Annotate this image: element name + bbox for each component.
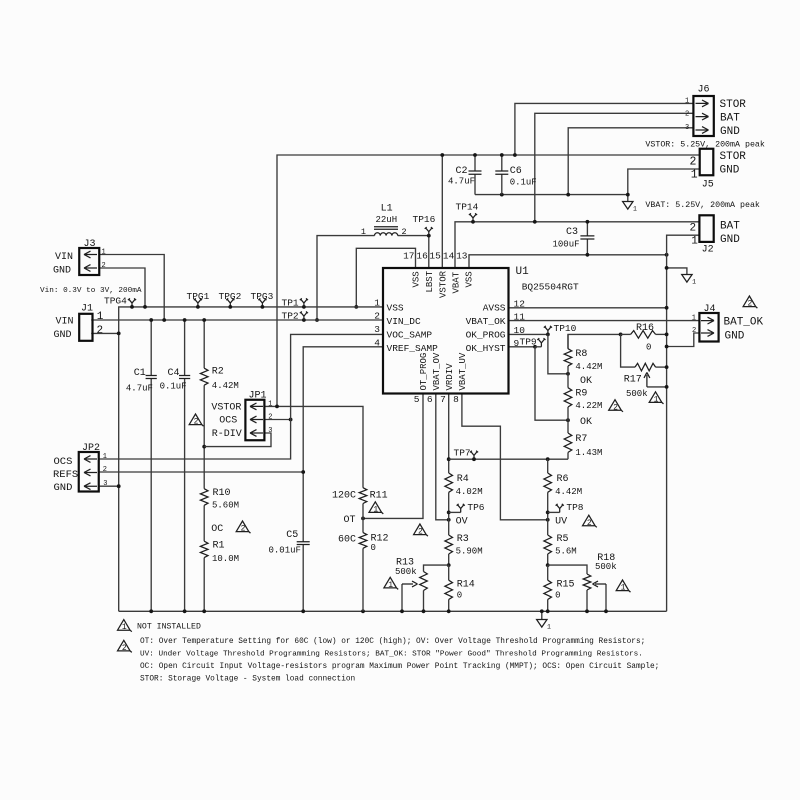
svg-text:TP2: TP2: [282, 311, 299, 322]
junction R18wiper-gnd: [604, 609, 608, 613]
junction C3-VBAT: [586, 220, 590, 224]
wire R3 bottom lead: [448, 554, 450, 565]
wire TP9 stub: [535, 346, 541, 348]
svg-text:OCS: OCS: [219, 415, 237, 426]
svg-text:2: 2: [122, 644, 127, 653]
svg-text:4.7uF: 4.7uF: [126, 384, 153, 394]
svg-text:R7: R7: [575, 434, 587, 445]
svg-text:R4: R4: [457, 474, 469, 485]
wire R18 branch: [548, 565, 587, 574]
wire C2 bottom: [474, 174, 476, 194]
junction pin17-VSSrail: [354, 305, 358, 309]
junction JP2p3-bus: [117, 484, 121, 488]
svg-text:14: 14: [443, 251, 455, 262]
svg-text:OT: Over Temperature Setting f: OT: Over Temperature Setting for 60C (lo…: [140, 638, 645, 646]
not-installed marker OC zone: [236, 521, 250, 533]
svg-text:4.7uF: 4.7uF: [448, 177, 475, 187]
capacitor C3: [580, 236, 594, 239]
not-installed marker OV zone: [414, 524, 428, 536]
svg-text:2: 2: [103, 466, 107, 474]
junction REFS-VREF: [301, 470, 305, 474]
connector J3: [79, 248, 99, 275]
svg-text:STOR: STOR: [720, 151, 747, 163]
svg-text:VBAT: 5.25V, 200mA peak: VBAT: 5.25V, 200mA peak: [645, 200, 760, 210]
svg-text:120C: 120C: [332, 491, 356, 502]
wire C4 bottom: [184, 379, 186, 612]
svg-text:4.42M: 4.42M: [575, 362, 602, 372]
ground G2: [682, 275, 692, 283]
junction gndstem: [540, 609, 544, 613]
svg-text:BQ25504RGT: BQ25504RGT: [522, 282, 579, 293]
test point TP2: [300, 312, 308, 321]
wire R15 top lead: [547, 565, 549, 580]
resistor R8: [564, 349, 572, 366]
junction R17-rail: [665, 365, 669, 369]
wire C5 bottom: [302, 545, 304, 612]
svg-text:2: 2: [613, 403, 618, 412]
wire C4 top stub: [184, 320, 186, 376]
wire U1 pin8 VBAT_UV to UV node: [462, 394, 548, 520]
wire U1 pin6 VBAT_OV to OV node: [436, 394, 449, 520]
svg-text:15: 15: [429, 251, 441, 262]
junction R12-gnd: [361, 609, 365, 613]
junction TP16 node: [427, 234, 431, 238]
svg-text:1: 1: [691, 236, 698, 248]
svg-text:C2: C2: [456, 166, 468, 177]
wire J3 pin1 to VIN rail: [99, 255, 164, 321]
svg-text:VSTOR: VSTOR: [438, 270, 448, 298]
resistor R14: [445, 580, 453, 599]
wire R17 wiper return: [647, 386, 667, 388]
junction VSSrail-rightrail: [665, 253, 669, 257]
svg-text:16: 16: [416, 251, 428, 262]
svg-text:1: 1: [97, 311, 104, 323]
svg-text:U1: U1: [516, 266, 530, 278]
wire J6 pin3 to GND bus: [568, 128, 693, 195]
wire U1 pin9 OK_HYST: [509, 346, 536, 348]
svg-text:10: 10: [514, 325, 526, 336]
note marker 1: [118, 620, 132, 632]
svg-text:7: 7: [440, 394, 446, 405]
svg-text:C6: C6: [510, 166, 522, 177]
svg-text:JP2: JP2: [82, 443, 100, 454]
svg-text:2: 2: [587, 519, 592, 528]
junction OV node: [447, 518, 451, 522]
junction J5gnd-bus: [626, 193, 630, 197]
svg-text:TP14: TP14: [456, 202, 479, 213]
wire OK_HYST down to R9/R7: [535, 347, 568, 420]
wire R17 left leg: [621, 334, 635, 367]
svg-text:C5: C5: [286, 530, 298, 541]
svg-text:BAT_OK: BAT_OK: [724, 317, 764, 329]
wire C1 top stub: [150, 320, 152, 376]
wire J1 pin2 to GND bus: [91, 332, 119, 334]
resistor R16: [631, 331, 656, 339]
connector J1: [79, 314, 92, 341]
wire R11 bottom to OT: [362, 504, 364, 519]
svg-text:1: 1: [654, 395, 659, 404]
svg-text:1: 1: [691, 169, 698, 182]
wire R2 to R10: [203, 385, 205, 489]
junction R9-R7 node: [566, 418, 570, 422]
junction C3-VSS: [586, 253, 590, 257]
svg-text:3: 3: [685, 124, 689, 132]
junction R16-rail: [665, 333, 669, 337]
svg-text:GND: GND: [725, 331, 745, 343]
svg-text:OC: Open Circuit Input Voltage: OC: Open Circuit Input Voltage-resistors…: [140, 663, 659, 671]
svg-text:R5: R5: [557, 534, 569, 545]
test point TP7: [470, 451, 478, 460]
junction TP1 node: [302, 305, 306, 309]
svg-text:GND: GND: [54, 482, 73, 494]
connector J6: [693, 96, 713, 136]
connector JP1: [245, 400, 264, 441]
svg-text:J1: J1: [81, 304, 93, 315]
svg-text:VIN: VIN: [55, 252, 73, 263]
wire R12 top lead: [362, 518, 364, 532]
svg-text:C3: C3: [566, 227, 578, 238]
resistor R9: [564, 388, 572, 407]
junction R16-R17 split: [619, 333, 623, 337]
svg-text:R8: R8: [575, 349, 587, 360]
svg-text:5.90M: 5.90M: [456, 547, 483, 557]
wire J2 pin1 GND to rail: [667, 235, 701, 611]
junction AVSS-rail: [665, 306, 669, 310]
svg-text:1: 1: [633, 206, 637, 213]
svg-text:1: 1: [268, 400, 272, 408]
junction R3-R13 node: [447, 563, 451, 567]
svg-text:TP9: TP9: [520, 337, 537, 348]
svg-text:13: 13: [456, 251, 468, 262]
wire L1 pin1 to VIN rail: [317, 236, 375, 320]
junction OT node: [361, 517, 365, 521]
svg-text:TP10: TP10: [554, 323, 577, 334]
svg-text:12: 12: [514, 298, 526, 309]
junction TP8 node: [546, 511, 550, 515]
wire R16 left lead: [621, 333, 631, 335]
svg-text:R16: R16: [636, 323, 654, 334]
svg-text:VSS: VSS: [412, 271, 422, 287]
connector J5: [700, 149, 714, 176]
junction R18-gnd: [585, 609, 589, 613]
svg-text:2: 2: [402, 227, 407, 237]
junction JP1p2-VOC: [289, 418, 293, 422]
junction J3p1-VIN: [162, 318, 166, 322]
wire U1 pin15 VSTOR stub: [441, 155, 443, 268]
connector J2: [699, 215, 713, 242]
svg-text:R10: R10: [213, 488, 231, 499]
inductor L1: [375, 233, 398, 236]
junction TP6 node: [447, 511, 451, 515]
svg-text:OCS: OCS: [54, 456, 73, 468]
svg-text:2: 2: [194, 418, 199, 427]
wire R9 bottom lead: [567, 407, 569, 420]
resistor R11: [359, 488, 367, 504]
svg-text:OK: OK: [580, 417, 592, 428]
wire R10 to R1: [203, 505, 205, 541]
resistor R12: [359, 533, 367, 549]
svg-text:2: 2: [102, 262, 106, 270]
resistor R2: [200, 368, 208, 385]
capacitor C4: [179, 376, 190, 379]
wire J3 pin2 to VSS rail: [99, 268, 145, 307]
junction R15-gnd: [546, 609, 550, 613]
svg-text:4.22M: 4.22M: [575, 401, 602, 411]
net VSS rail and GND bus: [119, 307, 383, 611]
svg-text:500k: 500k: [626, 389, 648, 399]
ground G3: [537, 620, 547, 628]
junction gndbranch: [665, 266, 669, 270]
svg-text:VBAT_OV: VBAT_OV: [432, 352, 442, 390]
junction C4-VIN: [183, 318, 187, 322]
svg-text:0.1uF: 0.1uF: [510, 178, 537, 188]
wire U1 pin14 VBAT to J2 pin2: [455, 222, 700, 268]
wire R6 bottom to R5: [547, 492, 549, 535]
svg-text:1: 1: [373, 505, 378, 514]
wire R6 top lead: [547, 459, 549, 473]
wire JP1 pin3 to R-DIV: [204, 433, 271, 447]
svg-text:VSS: VSS: [465, 271, 475, 287]
svg-text:J2: J2: [702, 244, 714, 255]
resistor R15: [544, 580, 552, 599]
svg-text:R6: R6: [557, 474, 569, 485]
net VSTOR rail: [277, 155, 700, 406]
svg-text:J6: J6: [698, 85, 710, 96]
svg-text:4: 4: [374, 337, 380, 348]
svg-text:VBAT: VBAT: [452, 271, 462, 293]
junction R1-gnd: [202, 609, 206, 613]
junction J1p2-bus: [117, 332, 121, 336]
svg-text:GND: GND: [54, 330, 72, 341]
svg-text:R14: R14: [457, 580, 475, 591]
svg-text:TP6: TP6: [467, 502, 484, 513]
svg-text:JP1: JP1: [249, 391, 267, 402]
svg-text:10.0M: 10.0M: [212, 554, 239, 564]
test point TP6: [457, 504, 465, 513]
svg-text:GND: GND: [720, 234, 740, 246]
not-installed marker R9: [609, 400, 623, 412]
wire C1 bottom: [150, 379, 152, 612]
svg-text:R9: R9: [575, 389, 587, 400]
junction C1-VIN: [149, 318, 153, 322]
svg-text:4.02M: 4.02M: [456, 487, 483, 497]
svg-text:VIN_DC: VIN_DC: [387, 316, 422, 327]
junction TP10 node: [546, 333, 550, 337]
svg-text:VRDIV: VRDIV: [445, 363, 455, 391]
wire JP2 pin3 to GND bus: [99, 485, 119, 487]
svg-text:OK_PROG: OK_PROG: [466, 330, 506, 341]
svg-text:VSS: VSS: [387, 302, 404, 313]
svg-text:100uF: 100uF: [553, 240, 580, 250]
svg-text:1: 1: [685, 97, 689, 105]
wire R5 bottom lead: [547, 554, 549, 565]
svg-text:1: 1: [692, 279, 696, 286]
not-installed marker R17: [649, 392, 663, 404]
svg-text:60C: 60C: [338, 535, 356, 546]
svg-text:GND: GND: [720, 126, 740, 138]
wire R7 top lead: [567, 420, 569, 433]
svg-text:VSTOR: VSTOR: [211, 402, 241, 413]
junction J4p2-rail: [665, 345, 669, 349]
svg-text:STOR: STOR: [720, 99, 747, 111]
svg-text:J5: J5: [702, 180, 714, 191]
wire U1 pin17 VSS loop: [356, 248, 415, 307]
svg-text:TPG2: TPG2: [219, 291, 242, 302]
test point TP10: [544, 326, 552, 335]
resistor R6: [544, 473, 552, 492]
svg-text:R2: R2: [212, 367, 224, 378]
svg-text:GND: GND: [720, 165, 740, 177]
junction L1-VIN: [315, 318, 319, 322]
svg-text:TPG3: TPG3: [251, 291, 274, 302]
wire R12 bottom lead: [362, 548, 364, 611]
resistor R3: [445, 535, 453, 554]
junction TP2 node: [302, 318, 306, 322]
wire R4 bottom to R3: [448, 492, 450, 535]
junction VRDIV-TP7: [447, 457, 451, 461]
svg-text:R1: R1: [213, 541, 225, 552]
svg-text:VOC_SAMP: VOC_SAMP: [387, 330, 433, 341]
svg-text:17: 17: [403, 251, 414, 262]
svg-text:OT_PROG: OT_PROG: [419, 353, 429, 391]
svg-text:UV: UV: [555, 517, 567, 528]
svg-text:1: 1: [621, 584, 626, 593]
svg-text:5.60M: 5.60M: [212, 501, 239, 511]
svg-text:VBAT_OK: VBAT_OK: [466, 316, 506, 327]
wire R13 branch: [424, 565, 449, 571]
svg-text:Vin: 0.3V to 3V, 200mA: Vin: 0.3V to 3V, 200mA: [40, 287, 142, 295]
junction J6p3-bus: [566, 193, 570, 197]
svg-text:R3: R3: [457, 534, 469, 545]
svg-text:TP7: TP7: [454, 448, 471, 459]
wire C3 bottom stub: [586, 239, 588, 255]
wire ground branch J2: [667, 268, 687, 275]
wire J6 pin1 to VSTOR rail: [515, 103, 694, 155]
svg-text:C1: C1: [134, 368, 146, 379]
junction J6p2-VBAT: [533, 220, 537, 224]
svg-text:5.6M: 5.6M: [555, 547, 577, 557]
wire JP1 pin1 to R11: [264, 406, 363, 487]
svg-text:REFS: REFS: [53, 469, 78, 481]
wire C2 top stub: [474, 155, 476, 171]
resistor R7: [564, 433, 572, 452]
wire J6 pin2 to VBAT: [535, 113, 694, 222]
svg-text:500k: 500k: [595, 562, 617, 572]
resistor R1: [200, 541, 208, 557]
svg-text:TP16: TP16: [413, 214, 436, 225]
resistor R10: [200, 489, 208, 506]
svg-text:TPG1: TPG1: [187, 291, 210, 302]
wire R13 bottom lead: [423, 591, 425, 612]
svg-text:2: 2: [374, 310, 380, 321]
not-installed marker J4: [743, 296, 757, 308]
capacitor C1: [146, 376, 157, 379]
junction TP9 node: [533, 345, 537, 349]
svg-text:LBST: LBST: [425, 270, 435, 292]
svg-text:2: 2: [97, 325, 104, 337]
svg-text:1: 1: [103, 453, 107, 461]
junction C2-rail: [473, 153, 477, 157]
net OCS VOC_SAMP: [99, 334, 383, 459]
svg-text:1: 1: [692, 315, 696, 323]
svg-text:5: 5: [414, 394, 420, 405]
wire U1 pin10 OK_PROG: [509, 333, 548, 335]
junction R14-gnd: [447, 609, 451, 613]
svg-text:0: 0: [457, 590, 462, 600]
test point TP9: [537, 338, 545, 347]
svg-text:11: 11: [514, 311, 526, 322]
wire R8 bottom lead: [567, 366, 569, 374]
wire R15 bottom lead: [547, 600, 549, 612]
not-installed marker UV zone: [583, 515, 597, 527]
wire R18 bottom lead: [586, 590, 588, 611]
junction R13-gnd: [422, 609, 426, 613]
not-installed marker JP1: [189, 414, 203, 426]
capacitor C2: [469, 171, 482, 174]
wire TP6 stub: [449, 511, 461, 513]
junction RDIV node: [202, 445, 206, 449]
svg-text:GND: GND: [53, 266, 71, 277]
svg-text:3: 3: [374, 324, 380, 335]
test point TPG1: [194, 298, 202, 307]
svg-text:R11: R11: [370, 491, 388, 502]
connector JP2: [79, 452, 99, 492]
svg-text:OK_HYST: OK_HYST: [466, 343, 506, 354]
junction R2-VIN: [202, 318, 206, 322]
test point TP16: [425, 227, 433, 236]
wire ground stem: [541, 611, 543, 619]
svg-text:UV: Under Voltage Threshold Pr: UV: Under Voltage Threshold Programming …: [140, 651, 643, 659]
svg-text:TPG4: TPG4: [104, 296, 127, 307]
svg-text:2: 2: [690, 222, 697, 234]
wire TP7 rail: [449, 458, 568, 460]
wire U1 pin12 AVSS to rail: [509, 307, 667, 309]
junction R6 top node: [546, 457, 550, 461]
svg-text:VIN: VIN: [56, 317, 74, 328]
svg-text:6: 6: [427, 394, 433, 405]
resistor R4: [445, 473, 453, 492]
svg-text:4.42M: 4.42M: [212, 381, 239, 391]
svg-text:VBAT_UV: VBAT_UV: [458, 352, 468, 390]
capacitor C5: [297, 542, 310, 545]
ground G1: [623, 202, 633, 210]
svg-text:0.01uF: 0.01uF: [269, 546, 301, 556]
junction R5-R18 node: [546, 563, 550, 567]
svg-text:0: 0: [555, 591, 560, 601]
wire R1 bottom: [203, 558, 205, 612]
wire C6 bottom stub: [501, 174, 503, 194]
not-installed marker R13: [384, 577, 398, 589]
svg-text:8: 8: [453, 394, 459, 405]
wire R2 top stub: [203, 320, 205, 368]
junction wiper-rail: [665, 385, 669, 389]
wire C2-C6 bottom bus: [475, 194, 628, 196]
wire REFS from JP2: [99, 471, 303, 473]
svg-text:2: 2: [241, 525, 246, 534]
not-installed marker R18: [616, 580, 630, 592]
svg-text:R15: R15: [557, 580, 575, 591]
svg-text:OK: OK: [580, 376, 592, 387]
wire JP1 pin2 to VOC line: [264, 419, 290, 421]
junction TP7 node: [472, 457, 476, 461]
svg-text:3: 3: [103, 480, 107, 488]
wire R16 right lead: [656, 333, 667, 335]
svg-text:TP8: TP8: [566, 502, 583, 513]
junction pin15-rail: [440, 153, 444, 157]
wire R17 right lead: [656, 366, 667, 368]
junction C4-gnd: [183, 609, 187, 613]
wire R13 wiper: [401, 584, 403, 611]
